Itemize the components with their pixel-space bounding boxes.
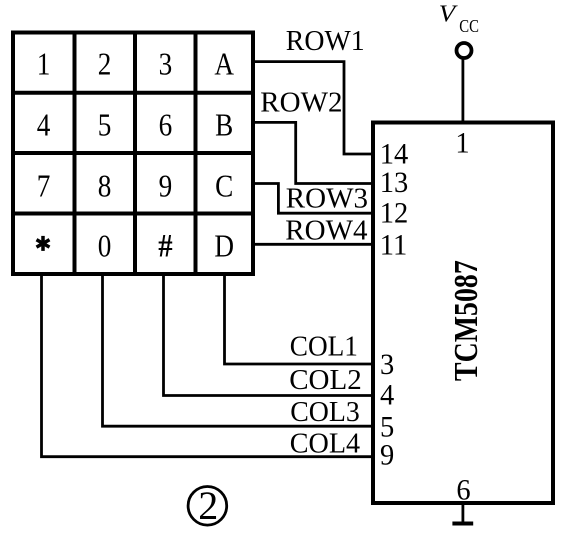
svg-text:COL3: COL3	[290, 396, 360, 428]
svg-text:11: 11	[380, 229, 407, 262]
svg-text:4: 4	[37, 108, 51, 142]
svg-text:8: 8	[98, 169, 112, 203]
svg-text:V: V	[439, 0, 458, 27]
label VCC	[439, 0, 479, 36]
keypad S1 outline	[13, 33, 253, 275]
keypad horizontal divider 1	[11, 91, 255, 95]
svg-text:A: A	[214, 48, 234, 82]
svg-text:#: #	[158, 226, 173, 263]
svg-text:ROW2: ROW2	[260, 86, 342, 118]
figure number 2 circle	[188, 487, 227, 526]
wire COL4	[42, 272, 373, 457]
svg-text:13: 13	[380, 166, 408, 199]
svg-text:12: 12	[380, 197, 408, 230]
svg-text:D: D	[214, 229, 234, 263]
svg-text:7: 7	[37, 169, 51, 203]
svg-text:4: 4	[380, 379, 395, 412]
keypad horizontal divider 2	[11, 151, 255, 155]
wire ground	[461, 503, 464, 523]
ground	[452, 522, 473, 526]
key asterisk	[37, 236, 50, 251]
wire COL1	[225, 272, 373, 364]
chip U1 TCM5087 body	[373, 123, 553, 504]
wire COL3	[103, 272, 373, 426]
wire ROW2	[253, 122, 372, 183]
keypad vertical divider 2	[133, 31, 137, 275]
svg-text:6: 6	[159, 108, 173, 142]
svg-text:B: B	[215, 108, 233, 142]
wire VCC	[461, 58, 464, 124]
keypad horizontal divider 3	[11, 212, 255, 216]
svg-text:9: 9	[159, 169, 173, 203]
svg-text:C: C	[215, 169, 233, 203]
svg-text:CC: CC	[459, 15, 479, 36]
svg-text:2: 2	[98, 48, 112, 82]
svg-text:COL4: COL4	[290, 428, 360, 459]
svg-text:ROW1: ROW1	[286, 26, 365, 58]
svg-text:9: 9	[380, 439, 394, 472]
svg-text:ROW3: ROW3	[286, 182, 368, 214]
svg-text:3: 3	[380, 348, 394, 381]
svg-text:6: 6	[456, 474, 470, 507]
wire ROW4	[253, 243, 372, 246]
svg-text:TCM5087: TCM5087	[446, 260, 484, 381]
keypad vertical divider 1	[73, 31, 77, 275]
svg-text:3: 3	[159, 48, 173, 82]
wire ROW1	[253, 62, 372, 154]
svg-text:2: 2	[198, 483, 218, 528]
svg-text:0: 0	[98, 229, 112, 263]
svg-text:ROW4: ROW4	[285, 215, 368, 247]
keypad vertical divider 3	[194, 31, 198, 275]
VCC terminal circle	[457, 43, 472, 58]
svg-text:5: 5	[98, 108, 112, 142]
wire COL2	[164, 272, 373, 396]
svg-text:1: 1	[455, 127, 469, 160]
wire ROW3	[253, 184, 372, 214]
svg-text:1: 1	[37, 48, 51, 82]
svg-text:COL2: COL2	[289, 364, 362, 396]
svg-text:COL1: COL1	[290, 331, 358, 363]
